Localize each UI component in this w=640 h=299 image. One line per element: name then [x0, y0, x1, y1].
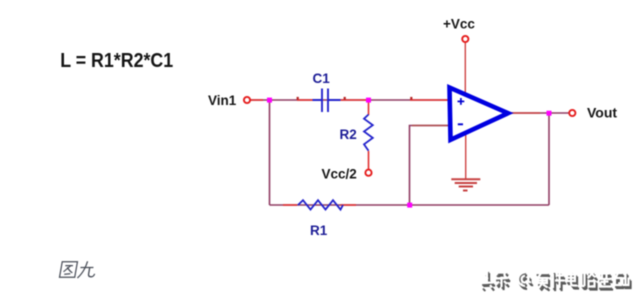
ground — [451, 179, 480, 190]
pin lead red: op-amp + input pin — [410, 99, 450, 101]
wire: output to Vout terminal — [508, 112, 569, 114]
svg-text:Vin1: Vin1 — [208, 93, 237, 108]
wire: top horizontal Vin1 node to op-amp + input — [250, 99, 450, 101]
terminal Vin1 — [244, 97, 250, 103]
svg-text:Vout: Vout — [587, 105, 617, 121]
op-amp + marker — [458, 98, 465, 105]
figure caption 图九 (hand-drawn glyphs, italic) — [60, 262, 78, 278]
wire: left vertical from node A down to bottom net — [269, 100, 271, 205]
图 outer box — [60, 262, 78, 278]
svg-text:R2: R2 — [340, 127, 357, 142]
svg-text:C1: C1 — [313, 71, 331, 86]
pin lead red: R1 left pin — [283, 204, 297, 206]
resistor R2 (vertical zigzag) — [364, 115, 373, 151]
pin lead red: C1 right pin — [339, 99, 368, 101]
图 inner strokes — [65, 265, 73, 267]
wire: bottom horizontal net — [270, 204, 550, 206]
pin lead red: R2 top pin — [368, 100, 370, 115]
op-amp U1 — [450, 88, 509, 140]
watermark shadow layer 1 — [482, 272, 630, 290]
pin lead red: R2 bottom pin to Vcc/2 — [368, 151, 370, 170]
op-amp - marker — [458, 123, 463, 125]
pin lead red: Vin1 terminal stub — [250, 99, 263, 101]
capacitor C1 — [313, 89, 341, 113]
wire: feedback vertical from Vout node down — [548, 113, 550, 205]
junction node A (Vin) — [267, 98, 272, 103]
watermark white face — [481, 270, 630, 288]
terminal Vcc/2 — [365, 170, 371, 176]
pin-end notch marks on top wire — [297, 97, 299, 100]
terminal Vout — [569, 110, 575, 116]
terminal +Vcc — [462, 36, 468, 42]
junction node B (C1/R2) — [366, 98, 371, 103]
pin lead red: op-amp output pin — [508, 112, 540, 114]
svg-text:R1: R1 — [310, 223, 328, 238]
svg-text:Vcc/2: Vcc/2 — [322, 167, 357, 182]
resistor R1 (horizontal zigzag) — [298, 200, 343, 209]
九 strokes — [77, 261, 87, 278]
svg-text:+Vcc: +Vcc — [443, 17, 475, 32]
ground line — [465, 131, 467, 179]
wire: inverting input corner — [410, 126, 451, 206]
junction node D (Vout) — [547, 111, 552, 116]
junction node C (bottom) — [407, 203, 412, 208]
svg-text:L = R1*R2*C1: L = R1*R2*C1 — [60, 50, 173, 72]
pin lead red: C1 left pin — [297, 99, 313, 101]
pin lead red: op-amp - input pin — [412, 125, 450, 127]
watermark shadow layer 2 — [483, 273, 631, 291]
+Vcc supply line — [464, 42, 466, 95]
pin lead red: R1 right pin — [341, 204, 357, 206]
